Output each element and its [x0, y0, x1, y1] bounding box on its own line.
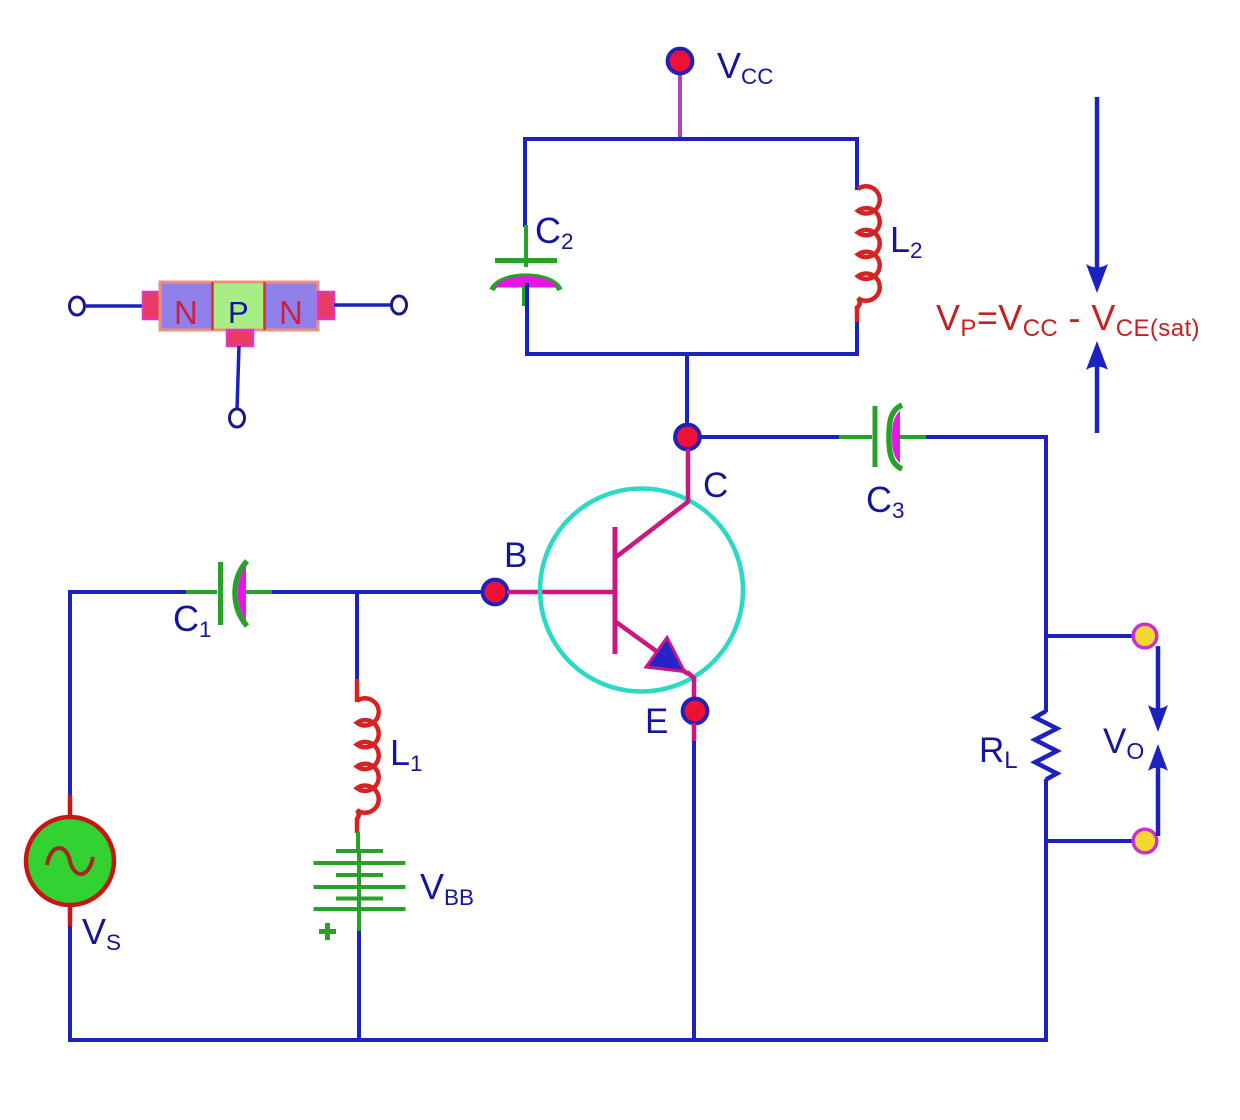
wire tank to collector node	[685, 354, 689, 428]
battery VBB top lead (green)	[356, 832, 360, 852]
NPN block diagram: body (N regions)	[160, 282, 318, 330]
VCC supply wire (magenta)	[678, 72, 682, 140]
source VS sine symbol	[47, 848, 93, 874]
NPN block diagram: base lead wire	[237, 346, 239, 410]
wire collector node to C3	[699, 435, 847, 439]
NPN block diagram: left terminal circle	[70, 297, 85, 315]
inductor L1 top red stub	[355, 679, 360, 702]
bottom output terminal (yellow)	[1133, 829, 1157, 853]
NPN block diagram: base terminal circle	[230, 409, 245, 427]
transistor collector vertical to node	[686, 449, 691, 503]
inductor L2 coil	[857, 186, 880, 308]
wire C3 to right corner	[926, 435, 1048, 439]
NPN block diagram: left contact	[143, 292, 160, 319]
battery VBB bottom lead (green)	[357, 909, 361, 932]
wire VBB to bottom bus	[357, 931, 361, 1042]
capacitor C1 curved plate magenta filling	[238, 566, 246, 620]
NPN block diagram: base contact	[227, 330, 253, 346]
emitter wire to bottom bus	[692, 741, 696, 1042]
NPN block diagram: right terminal circle	[392, 296, 407, 314]
NPN block diagram: right contact	[318, 292, 334, 319]
base wire (magenta)	[507, 590, 613, 595]
svg-text:C: C	[703, 466, 728, 505]
emitter wire magenta stub below node	[692, 723, 697, 742]
svg-text:B: B	[504, 536, 527, 575]
battery VBB plate 5 (short)	[336, 897, 383, 901]
wire right edge upper (to L2)	[855, 137, 859, 190]
transistor emitter arrowhead	[646, 638, 685, 672]
svg-text:P: P	[228, 295, 249, 330]
capacitor C3 curved plate magenta filling	[892, 411, 900, 463]
capacitor C3 right lead (green)	[900, 435, 928, 439]
transistor base bar	[613, 527, 618, 654]
capacitor C2 flat plate	[495, 258, 557, 263]
wire left edge lower (from C2)	[525, 283, 529, 356]
wire to top output terminal	[1046, 634, 1135, 638]
wire right vertical down to RL	[1044, 435, 1048, 712]
capacitor C2 curved plate (green outline)	[492, 276, 560, 290]
svg-text:E: E	[645, 702, 668, 741]
battery VBB plate 3 (short)	[336, 873, 383, 877]
battery VBB plus sign	[319, 923, 336, 940]
tank circuit bottom wire	[525, 352, 859, 356]
battery VBB center post	[357, 851, 361, 909]
wire RL to bottom corner	[1044, 779, 1048, 1042]
source VS top red lead	[68, 795, 73, 818]
NPN block diagram: base P region	[213, 284, 264, 329]
NPN block diagram: left lead wire	[85, 304, 144, 308]
capacitor C2 top lead (green)	[524, 225, 528, 267]
inductor L1 bottom red stub	[355, 818, 360, 833]
battery VBB plate 6 (long)	[314, 907, 406, 911]
VP annotation up arrowhead	[1086, 341, 1108, 370]
NPN block diagram: right lead wire	[334, 303, 391, 307]
wire right edge lower (from L2)	[855, 322, 859, 356]
VO down arrowhead	[1148, 705, 1168, 732]
wire junction to L1	[355, 592, 359, 680]
VP annotation down arrowhead	[1086, 264, 1108, 293]
wire top-left horizontal to C1	[68, 590, 187, 594]
VO up arrowhead	[1148, 744, 1168, 771]
transistor collector diagonal	[616, 501, 689, 557]
node C collector junction	[675, 425, 700, 450]
battery VBB plate 1 (short)	[336, 849, 383, 853]
battery VBB plate 2 (long)	[314, 861, 406, 865]
VO up arrow shaft	[1156, 766, 1161, 836]
transistor emitter kink to E node	[687, 672, 694, 700]
capacitor C3 left lead (green)	[839, 435, 872, 439]
top output terminal (yellow)	[1133, 624, 1157, 648]
svg-text:N: N	[174, 294, 198, 331]
transistor body circle (cyan)	[540, 489, 743, 692]
node E emitter junction	[683, 699, 708, 724]
source VS bottom red lead	[68, 904, 73, 927]
resistor RL zigzag	[1035, 711, 1057, 780]
capacitor C2 curved plate magenta filling	[495, 276, 557, 287]
bottom bus wire	[68, 1038, 1048, 1042]
capacitor C3 curved plate (green outline)	[889, 405, 902, 469]
capacitor C3 left plate	[873, 406, 878, 467]
battery VBB plate 4 (long)	[314, 885, 406, 889]
capacitor C1 right lead (green)	[245, 590, 274, 594]
VP annotation lower arrow shaft	[1095, 366, 1100, 433]
VP annotation upper arrow shaft	[1095, 97, 1100, 268]
svg-text:N: N	[279, 294, 303, 331]
NPN block diagram: P divider left	[211, 282, 214, 330]
transistor emitter diagonal	[616, 622, 688, 674]
node B base junction	[483, 580, 508, 605]
VO down arrow shaft	[1156, 646, 1161, 710]
inductor L1 coil	[356, 698, 379, 820]
capacitor C1 left lead (green)	[186, 590, 217, 594]
wire VS to bottom bus	[68, 926, 72, 1042]
wire left edge upper (to C2)	[523, 137, 527, 227]
node VCC terminal	[668, 49, 693, 74]
NPN block diagram: P divider right	[263, 282, 266, 330]
source VS circle	[26, 817, 114, 905]
capacitor C1 left plate	[218, 562, 223, 625]
wire C1 to base node	[272, 590, 484, 594]
tank circuit top wire	[523, 137, 859, 141]
wire left vertical	[68, 590, 72, 796]
wire to bottom output terminal	[1046, 839, 1135, 843]
inductor L2 bottom red stub	[855, 306, 860, 323]
capacitor C2 bottom lead (green stub)	[522, 285, 526, 306]
capacitor C1 curved plate (green outline)	[235, 561, 247, 626]
